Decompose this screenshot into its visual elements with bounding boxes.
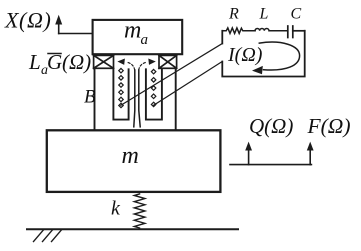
svg-text:F(Ω): F(Ω): [307, 114, 351, 138]
coil pocket left (U channel): [113, 69, 128, 119]
svg-text:B: B: [84, 87, 96, 108]
svg-text:m: m: [124, 18, 141, 44]
flux arrow left (dashed arc): [117, 59, 134, 70]
svg-text:C: C: [291, 6, 302, 23]
svg-text:a: a: [141, 32, 149, 48]
svg-text:(Ω): (Ω): [62, 50, 91, 74]
spring k: [134, 194, 145, 229]
resistor R: [222, 28, 255, 34]
inductor L: [255, 29, 287, 31]
displacement arrow X: [55, 15, 92, 34]
wire from coil to circuit (lower): [154, 62, 223, 106]
coil winding dots right column: [151, 69, 156, 106]
arrow F: [307, 142, 314, 165]
magnet outer wall right: [175, 68, 177, 130]
arrow Q: [245, 142, 252, 165]
overline of G: [48, 53, 61, 55]
capacitor C: [288, 26, 305, 38]
RLC circuit loop (left stubs, bottom, right sides): [222, 31, 304, 77]
svg-text:L: L: [28, 50, 41, 74]
svg-text:I(Ω): I(Ω): [227, 44, 263, 66]
svg-text:m: m: [122, 143, 139, 169]
wire from coil to circuit (upper): [121, 44, 223, 106]
mass m box: [47, 130, 221, 192]
ground line: [27, 228, 238, 230]
mass m_a box: [93, 20, 183, 54]
flux arrow right (dashed arc): [139, 59, 156, 70]
svg-text:X(Ω): X(Ω): [4, 8, 51, 33]
svg-text:Q(Ω): Q(Ω): [249, 114, 293, 138]
label L_a G(Omega): [28, 50, 91, 78]
coil cross-section left (box with X): [94, 55, 114, 68]
svg-text:R: R: [228, 6, 239, 23]
ground hatching: [34, 230, 62, 242]
svg-text:L: L: [259, 6, 269, 23]
magnet outer wall left: [94, 68, 96, 130]
svg-text:k: k: [111, 198, 121, 220]
coil lead wires in center: [134, 70, 140, 127]
coil pocket right (U channel): [146, 69, 162, 119]
coil cross-section right (box with X): [159, 55, 177, 68]
measurement baseline: [230, 164, 311, 166]
coil winding dots left column: [119, 68, 124, 107]
label m_a: [124, 18, 148, 48]
current loop arrow: [252, 42, 300, 74]
